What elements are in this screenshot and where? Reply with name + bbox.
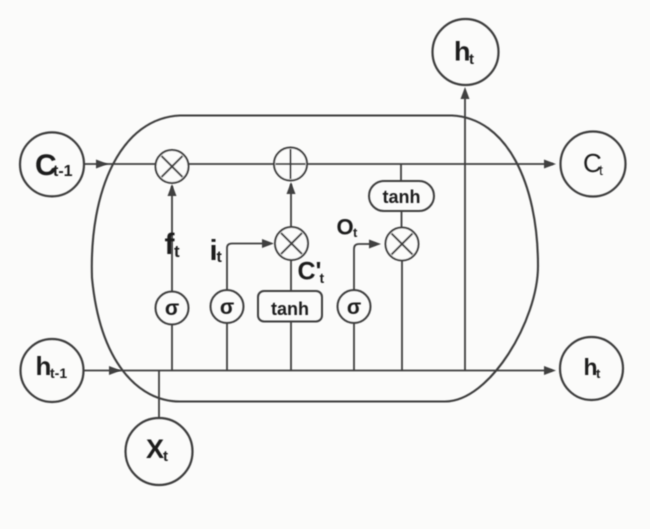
arrow: h_t-1 into cell: [109, 366, 121, 375]
gate: sigma3 (output sigmoid): [338, 290, 371, 323]
svg-text:t: t: [174, 242, 180, 261]
arrow: C_t-1 into cell: [96, 160, 108, 169]
wire: tanh branch up from h line to tanh box: [290, 322, 292, 371]
node C_t-1 (input cell state circle): [20, 132, 84, 196]
wire: tanh box to candidate multiply: [290, 260, 292, 291]
wire: input branch up from h line to sigma2: [226, 323, 228, 371]
arrow: into h_t top: [461, 87, 470, 99]
svg-text:t-1: t-1: [53, 163, 73, 180]
LSTM cell body (rounded container): [92, 116, 538, 402]
wire: O_t elbow from sigma3 to output multiply: [354, 244, 376, 290]
svg-text:σ: σ: [220, 296, 234, 319]
gate: sigma1 (forget sigmoid): [156, 292, 189, 325]
op: forget gate multiply (circle with X): [156, 150, 189, 183]
svg-text:O: O: [337, 215, 354, 240]
wire: hidden-state line h (horizontal, y=370): [84, 370, 552, 372]
wire: tanh pill to output multiply: [401, 211, 403, 228]
svg-text:h: h: [36, 351, 52, 381]
svg-text:t: t: [320, 270, 325, 286]
op: output multiply (circle with X): [386, 228, 419, 261]
node C_t (output cell state circle): [561, 132, 626, 197]
wire: h_t up-branch crossing cell to top: [464, 98, 466, 371]
gate: tanh box (candidate): [258, 291, 322, 322]
svg-text:X: X: [146, 434, 164, 464]
node X_t (input circle): [126, 418, 193, 485]
svg-text:t: t: [163, 448, 168, 465]
gate: tanh pill (cell output squash): [369, 181, 434, 211]
wire: output multiply down to h line: [401, 261, 403, 371]
wire: output branch up from h line to sigma3: [353, 323, 355, 371]
wire: X_t vertical into h line: [158, 371, 160, 419]
svg-text:tanh: tanh: [383, 187, 421, 207]
op: add gate (circle with +): [274, 148, 307, 181]
op: candidate multiply (circle with X): [275, 227, 308, 260]
arrow: O_t into output multiply: [369, 240, 381, 249]
wire: sigma1 up to forget multiply: [171, 186, 173, 292]
wire: i_t elbow from sigma2 to candidate multiply: [227, 244, 268, 291]
arrow: i_t into candidate multiply: [262, 239, 274, 248]
wire: forget branch up from h line to sigma1: [171, 325, 173, 371]
svg-text:tanh: tanh: [271, 299, 309, 319]
svg-text:t: t: [469, 51, 474, 68]
svg-text:σ: σ: [347, 296, 361, 319]
svg-text:t: t: [599, 162, 603, 178]
svg-text:C': C': [298, 258, 322, 286]
svg-text:t: t: [217, 249, 223, 266]
svg-text:t: t: [353, 225, 358, 240]
svg-text:σ: σ: [165, 297, 179, 320]
wire: candidate multiply up to plus: [290, 184, 292, 227]
svg-text:t-1: t-1: [50, 365, 67, 381]
node h_t top (output circle): [433, 19, 499, 85]
arrow: into C_t: [544, 160, 556, 169]
arrowheads: [96, 87, 556, 375]
arrow: into forget multiply: [168, 184, 177, 196]
wire: C line branch down into tanh pill: [400, 164, 402, 181]
node h_t bottom (output circle): [560, 337, 623, 400]
svg-text:t: t: [596, 366, 601, 381]
gate: sigma2 (input sigmoid): [211, 290, 244, 323]
wire: cell-state line C (horizontal, y=164): [83, 163, 553, 165]
node h_t-1 (input hidden state circle): [21, 339, 84, 402]
arrow: into plus: [287, 182, 296, 194]
arrow: into h_t bottom: [544, 366, 556, 375]
